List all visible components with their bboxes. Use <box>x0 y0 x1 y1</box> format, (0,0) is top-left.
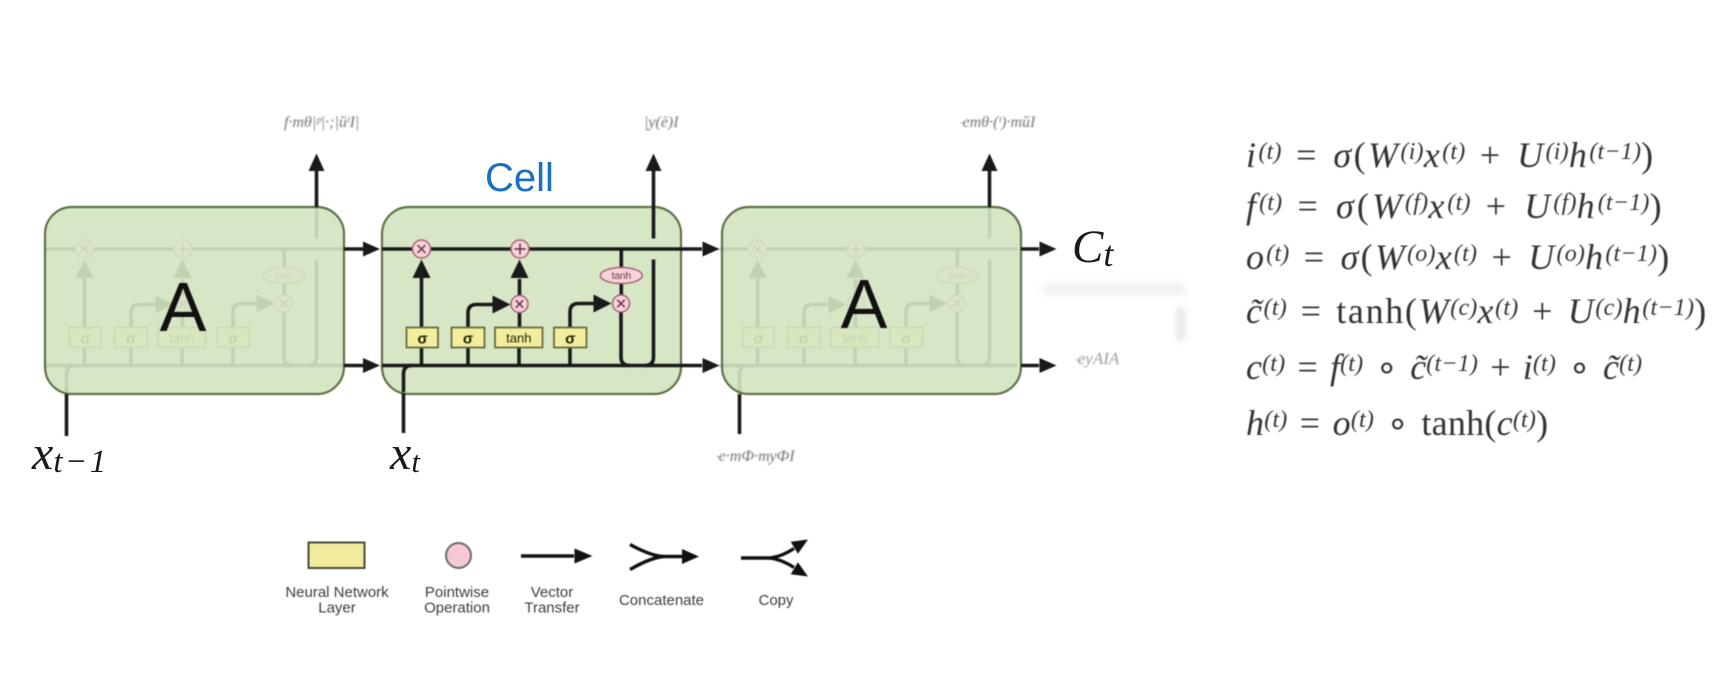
svg-text:Operation: Operation <box>424 600 490 617</box>
svg-text:Concatenate: Concatenate <box>619 592 704 609</box>
svg-text:Copy: Copy <box>758 592 794 609</box>
svg-text:A: A <box>160 268 207 346</box>
svg-text:Pointwise: Pointwise <box>425 584 489 601</box>
svg-text:Transfer: Transfer <box>524 600 579 617</box>
svg-text:A: A <box>841 265 888 343</box>
svg-text:Neural Network: Neural Network <box>285 584 389 601</box>
svg-text:Layer: Layer <box>318 600 356 617</box>
svg-text:Vector: Vector <box>531 584 574 601</box>
